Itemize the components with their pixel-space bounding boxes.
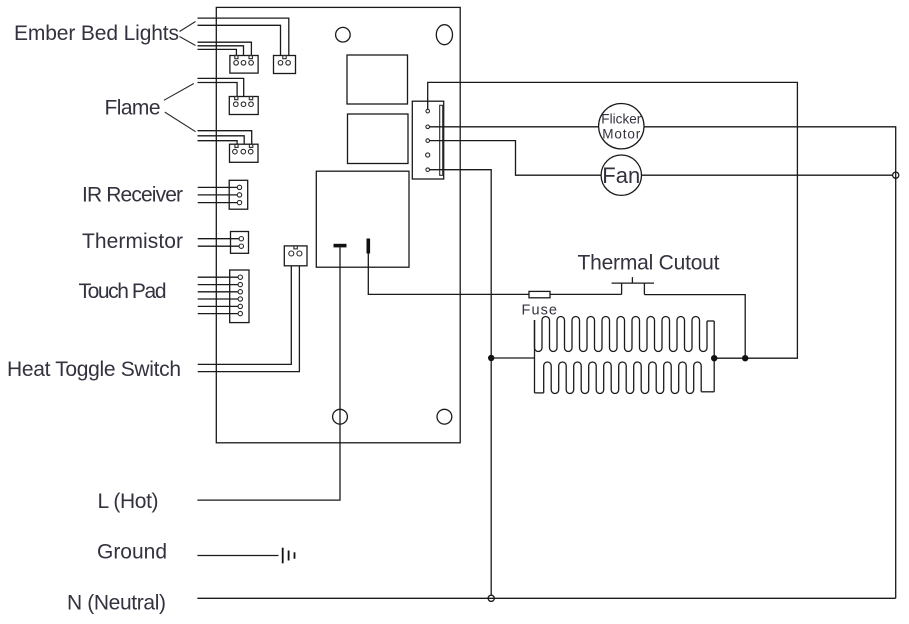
- heater element bottom meander row lead: [535, 392, 544, 394]
- wire IR 2: [198, 194, 238, 196]
- mounting hole top-right oval: [436, 25, 452, 45]
- fuse F1: [529, 291, 550, 297]
- wire fan to open terminal: [642, 174, 893, 176]
- IC block U1: [347, 55, 408, 104]
- mounting hole bottom-right: [437, 409, 452, 424]
- heater element bottom meander row: [544, 362, 702, 394]
- wire flicker motor to N vertical: [644, 127, 896, 599]
- wire ember J1 middle pin: [198, 46, 244, 56]
- svg-text:Flame: Flame: [105, 97, 161, 120]
- wire pin2 to flicker motor: [430, 126, 599, 128]
- flicker motor M1: [599, 104, 644, 149]
- wire touch pad 1: [198, 276, 238, 278]
- wire touch pad 5: [198, 305, 238, 307]
- heater top row to right bus: [707, 320, 714, 322]
- label arrow to flame upper group: [164, 84, 194, 101]
- wire touch pad 2: [198, 284, 238, 286]
- svg-text:Fan: Fan: [602, 163, 640, 188]
- connector J6 thermistor: [231, 232, 249, 254]
- IC block U2: [348, 114, 409, 164]
- wire fuse to thermal cutout: [550, 293, 622, 295]
- wire pin3 to fan: [430, 141, 602, 176]
- heater element top meander row: [535, 317, 708, 352]
- relay terminal bar vertical (heater feed): [367, 239, 371, 254]
- wire ember J1 right pin: [198, 42, 252, 55]
- svg-text:Touch Pad: Touch Pad: [79, 280, 167, 303]
- open terminal junction N/pin5 wire: [488, 595, 494, 601]
- wire ember J2 left pin: [198, 25, 281, 55]
- wire thermal cutout to heater right junction: [644, 295, 745, 359]
- heater element left bus: [534, 320, 536, 393]
- svg-text:Thermistor: Thermistor: [82, 230, 183, 253]
- svg-text:Ground: Ground: [97, 540, 167, 563]
- wire N (Neutral): [197, 597, 895, 599]
- heater bottom row to right bus: [701, 391, 714, 393]
- wire flame J4 middle pin: [198, 136, 245, 144]
- connector J1 ember bed lights 3-pin: [230, 56, 258, 74]
- svg-text:Thermal Cutout: Thermal Cutout: [578, 252, 720, 275]
- fan motor M2: [601, 155, 641, 195]
- connector J7 touch pad: [230, 270, 249, 323]
- svg-text:Heat Toggle Switch: Heat Toggle Switch: [7, 358, 181, 381]
- wire heat toggle upper: [198, 266, 292, 365]
- wire thermistor 1: [198, 238, 239, 240]
- svg-text:Motor: Motor: [602, 127, 641, 142]
- wire pin1 to heater right bus (top route): [428, 82, 798, 358]
- wire heat toggle lower: [198, 266, 300, 372]
- wire L (Hot): [197, 247, 340, 500]
- label arrow to ember 3-pin group: [180, 37, 196, 46]
- wire flame J3 left pin: [198, 83, 238, 97]
- wire flame J4 left pin: [198, 141, 238, 145]
- junction dot thermal cutout output: [742, 355, 748, 361]
- svg-text:IR Receiver: IR Receiver: [82, 183, 183, 206]
- svg-text:L (Hot): L (Hot): [98, 490, 159, 513]
- label arrow to flame lower group: [165, 112, 196, 132]
- wire flame J3 middle pin: [198, 78, 244, 96]
- wire touch pad 6: [198, 313, 238, 315]
- svg-text:Ember Bed Lights: Ember Bed Lights: [14, 22, 179, 45]
- thermal cutout TC1: [612, 277, 654, 295]
- ground symbol: [283, 548, 295, 564]
- wire heater entry: [491, 357, 534, 359]
- wire flame J4 right pin: [198, 131, 252, 145]
- connector J3 flame 3-pin upper: [229, 97, 258, 115]
- svg-text:Fuse: Fuse: [522, 303, 558, 319]
- wire ember J2 right pin: [198, 18, 289, 55]
- connector J5 IR receiver: [229, 180, 248, 209]
- connector J8 heat toggle switch 2-pin: [284, 246, 307, 266]
- junction dot heater left: [488, 355, 494, 361]
- wire IR 3: [198, 202, 238, 204]
- wire Ground lead: [197, 555, 278, 557]
- connector J4 flame 3-pin lower: [230, 144, 259, 162]
- heater element right bus: [713, 321, 715, 392]
- wire pin5 down to N (left heater feed): [430, 170, 492, 596]
- svg-text:Flicker: Flicker: [601, 111, 642, 126]
- open terminal junction fan/N: [893, 172, 899, 178]
- PCB board outline: [216, 7, 460, 442]
- mounting hole top-left: [336, 27, 351, 42]
- junction dot heater right: [711, 355, 717, 361]
- wire touch pad 3: [198, 291, 238, 293]
- relay terminal bar horizontal (L): [334, 244, 347, 248]
- wire touch pad 4: [198, 298, 238, 300]
- wire IR 1: [198, 186, 238, 188]
- svg-text:N (Neutral): N (Neutral): [67, 591, 166, 614]
- wire thermistor 2: [198, 245, 239, 247]
- wire ember J1 left pin: [198, 49, 237, 55]
- connector J9 output 5-pin: [412, 101, 443, 179]
- wire relay to fuse (heater live feed): [368, 254, 529, 295]
- connector J2 ember bed lights 2-pin: [274, 56, 296, 74]
- label arrow to ember 2-pin group: [180, 22, 196, 32]
- mounting hole bottom-left: [333, 409, 348, 424]
- relay block K1: [316, 171, 409, 267]
